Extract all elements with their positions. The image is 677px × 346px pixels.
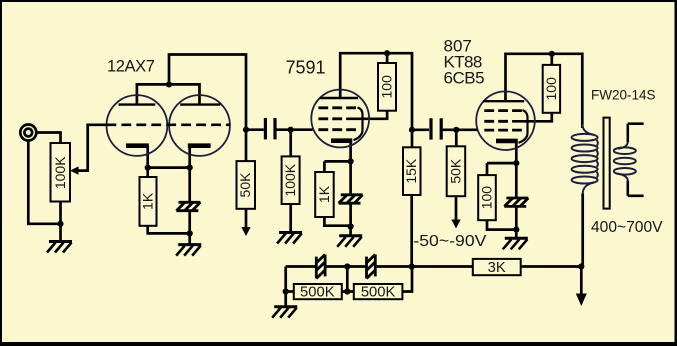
svg-text:100K: 100K — [282, 163, 298, 196]
svg-text:100K: 100K — [52, 156, 68, 189]
svg-text:400~700V: 400~700V — [591, 219, 663, 236]
svg-text:1K: 1K — [316, 185, 332, 203]
svg-text:100: 100 — [543, 77, 559, 101]
svg-text:3K: 3K — [488, 260, 506, 276]
svg-text:50K: 50K — [448, 158, 464, 184]
svg-text:50K: 50K — [237, 172, 253, 198]
svg-text:12AX7: 12AX7 — [107, 58, 155, 76]
svg-text:1K: 1K — [140, 192, 156, 210]
svg-text:500K: 500K — [300, 285, 335, 301]
svg-text:FW20-14S: FW20-14S — [591, 88, 656, 103]
svg-text:100: 100 — [479, 186, 495, 210]
svg-text:7591: 7591 — [286, 58, 326, 78]
svg-text:6CB5: 6CB5 — [444, 69, 485, 88]
svg-text:15K: 15K — [403, 158, 419, 184]
svg-text:500K: 500K — [361, 285, 396, 301]
svg-text:-50~-90V: -50~-90V — [413, 233, 486, 250]
svg-text:100: 100 — [379, 75, 395, 99]
